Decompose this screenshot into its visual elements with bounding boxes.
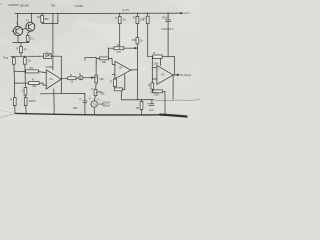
svg-text:T2: T2 bbox=[26, 19, 30, 23]
svg-text:D: D bbox=[79, 72, 81, 76]
svg-text:1uF: 1uF bbox=[149, 108, 154, 112]
svg-text:10k: 10k bbox=[154, 62, 159, 66]
svg-text:2200/16 V: 2200/16 V bbox=[162, 27, 174, 31]
svg-text:740: 740 bbox=[50, 3, 55, 7]
svg-text:R: R bbox=[144, 17, 146, 21]
svg-text:R: R bbox=[115, 16, 117, 20]
svg-text:15k: 15k bbox=[32, 84, 37, 88]
svg-text:0.1: 0.1 bbox=[30, 36, 34, 40]
svg-text:68n: 68n bbox=[73, 106, 78, 110]
svg-text:R: R bbox=[10, 98, 12, 102]
svg-text:100/5: 100/5 bbox=[29, 99, 36, 103]
svg-text:R3: R3 bbox=[5, 56, 9, 60]
svg-text:R10: R10 bbox=[162, 16, 167, 20]
svg-text:P: P bbox=[91, 87, 93, 91]
svg-text:2N3055: 2N3055 bbox=[8, 3, 19, 7]
svg-text:TL062: TL062 bbox=[45, 65, 53, 69]
svg-text:680: 680 bbox=[44, 17, 49, 21]
svg-text:10k: 10k bbox=[99, 77, 104, 81]
svg-text:C: C bbox=[21, 88, 23, 92]
svg-text:R: R bbox=[148, 83, 150, 87]
svg-text:R2: R2 bbox=[37, 15, 41, 19]
svg-text:R: R bbox=[117, 43, 119, 47]
svg-text:P3U: P3U bbox=[151, 91, 156, 95]
svg-text:R: R bbox=[153, 51, 155, 55]
svg-text:do lampy: do lampy bbox=[181, 73, 193, 77]
svg-text:O3: O3 bbox=[161, 72, 165, 76]
svg-text:R: R bbox=[133, 16, 135, 20]
svg-text:O1: O1 bbox=[49, 77, 53, 81]
svg-text:T1: T1 bbox=[15, 22, 19, 26]
svg-text:Δ+7V: Δ+7V bbox=[123, 8, 130, 12]
svg-text:R: R bbox=[110, 80, 112, 84]
svg-text:R: R bbox=[70, 73, 72, 77]
svg-text:R: R bbox=[89, 97, 91, 101]
svg-text:R5: R5 bbox=[29, 66, 33, 70]
svg-text:TL062: TL062 bbox=[75, 4, 84, 8]
svg-text:10k: 10k bbox=[100, 92, 105, 96]
svg-text:47: 47 bbox=[24, 48, 27, 52]
svg-text:R: R bbox=[16, 46, 18, 50]
svg-text:C: C bbox=[79, 97, 81, 101]
svg-text:470: 470 bbox=[116, 50, 121, 54]
svg-text:300uA: 300uA bbox=[102, 103, 110, 107]
svg-text:18k: 18k bbox=[102, 60, 107, 64]
svg-text:R: R bbox=[32, 77, 34, 81]
svg-text:+12 V: +12 V bbox=[184, 11, 191, 15]
svg-text:R9: R9 bbox=[132, 38, 136, 42]
svg-text:50: 50 bbox=[136, 106, 139, 110]
svg-text:BD140: BD140 bbox=[20, 4, 29, 8]
svg-text:O2: O2 bbox=[119, 66, 123, 70]
